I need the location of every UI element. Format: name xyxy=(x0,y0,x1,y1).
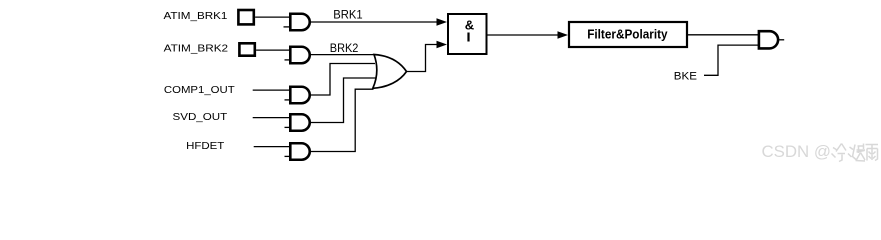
svg-text:&: & xyxy=(465,17,474,32)
svg-text:COMP1_OUT: COMP1_OUT xyxy=(164,85,236,96)
svg-text:BRK2: BRK2 xyxy=(330,42,359,55)
svg-text:BKE: BKE xyxy=(674,71,698,83)
svg-text:HFDET: HFDET xyxy=(186,141,225,152)
svg-text:BRK1: BRK1 xyxy=(333,8,362,21)
svg-text:CSDN @: CSDN @ xyxy=(762,142,832,161)
svg-text:SVD_OUT: SVD_OUT xyxy=(173,112,228,123)
svg-text:Filter&Polarity: Filter&Polarity xyxy=(587,27,668,42)
svg-text:ATIM_BRK1: ATIM_BRK1 xyxy=(164,11,228,22)
svg-text:ATIM_BRK2: ATIM_BRK2 xyxy=(164,44,229,55)
